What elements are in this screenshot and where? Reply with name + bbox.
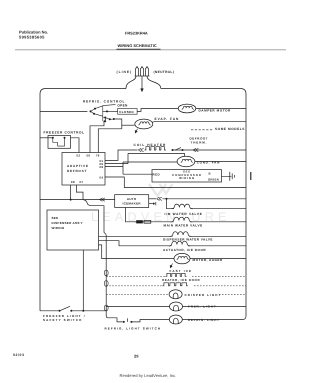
svg-text:FREEZER CONTROL: FREEZER CONTROL — [44, 131, 85, 135]
bus tick — [250, 172, 251, 180]
dispenser ground drop — [82, 250, 84, 311]
svg-text:CRISPER LIGHT: CRISPER LIGHT — [185, 293, 222, 297]
cond fan motor — [177, 156, 195, 166]
svg-text:Rendered by LeadVenture, Inc.: Rendered by LeadVenture, Inc. — [120, 373, 177, 378]
svg-text:AUTO: AUTO — [127, 197, 137, 201]
refrig control lower contacts — [104, 117, 106, 119]
svg-text:E2: E2 — [77, 154, 81, 158]
svg-text:REFRIG. LIGHT SWITCH: REFRIG. LIGHT SWITCH — [105, 327, 162, 331]
crisper dashed right — [219, 293, 246, 295]
svg-text:T9: T9 — [96, 154, 100, 158]
refrig control throw open — [103, 105, 116, 106]
left bus — [39, 94, 41, 311]
svg-text:E9: E9 — [100, 165, 104, 169]
V2 connector 2 — [104, 281, 108, 287]
damper motor — [178, 104, 196, 113]
wire E6 up — [90, 118, 106, 152]
ground lead arrow — [141, 76, 143, 89]
svg-text:RED: RED — [153, 173, 161, 177]
plug body line — [135, 75, 150, 77]
i/m water valve wire — [191, 208, 247, 210]
coil heater element — [145, 147, 166, 150]
refrig light switch — [123, 321, 125, 323]
svg-text:THERM.: THERM. — [191, 140, 208, 144]
wire E8 down — [70, 185, 72, 200]
icemaker feed wire — [40, 199, 115, 201]
auger feed — [99, 245, 175, 259]
watermark logo — [149, 184, 173, 196]
wire ground tail — [228, 175, 231, 177]
svg-text:(NEUTRAL): (NEUTRAL) — [154, 70, 175, 74]
top wire left segment — [40, 89, 126, 95]
header rule — [15, 49, 286, 51]
right bus bottom corner — [241, 316, 246, 320]
main water valve coil — [171, 217, 193, 222]
adaptive defrost box — [62, 153, 105, 186]
wire damper to bus — [196, 108, 246, 110]
compressor red wire — [123, 173, 152, 175]
dispenser valve coil — [170, 232, 192, 237]
plug prong ground — [140, 67, 143, 77]
auger motor — [174, 253, 190, 263]
feeder V2 upper — [104, 233, 106, 253]
wire evap fan to bus — [152, 120, 246, 123]
freezer light wire — [40, 310, 59, 312]
svg-text:DEFROST: DEFROST — [67, 169, 87, 173]
svg-text:ICEMAKER: ICEMAKER — [122, 202, 141, 206]
right bus — [245, 94, 247, 316]
i/m water valve coil — [171, 204, 193, 209]
svg-text:GREEN: GREEN — [208, 177, 219, 181]
svg-text:SAFETY SWITCH: SAFETY SWITCH — [43, 318, 82, 322]
V2 connector 1 — [104, 270, 108, 276]
crisper dashed left — [106, 293, 169, 295]
icemaker feed connector — [100, 198, 105, 201]
frzr wire right — [182, 306, 246, 308]
svg-text:DISPENSER ASS'Y: DISPENSER ASS'Y — [52, 221, 83, 225]
wire freezer control to E2 riser — [71, 138, 80, 153]
svg-text:WIRING: WIRING — [179, 176, 195, 180]
wire bus to refrig control — [40, 110, 87, 112]
actuator feed — [99, 241, 172, 246]
refrig wire right — [182, 319, 241, 321]
svg-text:HEATER, ICE DOOR: HEATER, ICE DOOR — [162, 278, 200, 282]
main water valve wire — [190, 221, 246, 223]
wire branch to i/m valve — [166, 198, 168, 200]
feeder V2 lower — [105, 252, 107, 316]
svg-text:5995385605: 5995385605 — [19, 35, 45, 40]
heater dashed left — [106, 285, 162, 287]
svg-text:E8: E8 — [71, 180, 75, 184]
svg-text:EVAP. FAN: EVAP. FAN — [155, 117, 180, 121]
svg-text:FAST ICE: FAST ICE — [170, 269, 193, 273]
svg-text:ADAPTIVE: ADAPTIVE — [67, 164, 89, 168]
wire E9 right — [105, 165, 123, 167]
V2 connector 3 — [104, 305, 108, 311]
svg-text:E6: E6 — [87, 154, 91, 158]
closed box — [118, 109, 138, 115]
actuator coil — [169, 241, 191, 246]
freezer control box — [48, 136, 71, 149]
actuator wire — [188, 245, 246, 247]
wire closed box to damper — [137, 109, 178, 112]
refrig light wire — [106, 316, 123, 322]
cord wire neutral side — [147, 76, 161, 89]
svg-text:(LINE): (LINE) — [117, 70, 133, 74]
svg-text:B: B — [209, 172, 211, 176]
defrost therm switch — [175, 148, 181, 150]
defrost therm junction dot — [172, 149, 174, 151]
inline connector on main valve feed — [136, 220, 143, 223]
fast ice dashed left — [106, 275, 167, 277]
svg-text:SOME MODELS: SOME MODELS — [215, 127, 245, 131]
frzr lamp — [170, 302, 183, 311]
plug prong line — [135, 67, 138, 77]
cord wire line side — [126, 76, 136, 89]
refrig control switch poles — [90, 110, 92, 112]
svg-text:29: 29 — [134, 354, 139, 359]
dispenser valve feed — [99, 235, 173, 237]
svg-text:E7: E7 — [80, 180, 84, 184]
wire to defrost therm — [172, 149, 246, 151]
auger wire to bus — [190, 258, 246, 260]
wire E1 to coil heater — [105, 150, 138, 160]
svg-text:DISPENSER WATER VALVE: DISPENSER WATER VALVE — [163, 238, 213, 242]
freezer control switch — [52, 137, 54, 139]
freezer light switch — [59, 310, 61, 312]
wire icemaker out to bus — [163, 198, 247, 200]
svg-text:02/03: 02/03 — [13, 353, 25, 357]
icemaker out wire — [149, 198, 156, 200]
svg-text:WIRING SCHEMATIC: WIRING SCHEMATIC — [118, 43, 157, 48]
svg-text:CLOSED: CLOSED — [119, 110, 134, 114]
wire T9 up — [98, 129, 122, 153]
evap fan feed — [122, 124, 135, 126]
frzr wire left — [106, 306, 169, 308]
ground symbol — [229, 172, 231, 181]
icemaker stub — [149, 203, 153, 205]
wire E5 right — [105, 163, 128, 165]
wire E7 down — [76, 185, 83, 200]
svg-text:SEE: SEE — [52, 216, 59, 220]
svg-text:E4: E4 — [100, 175, 104, 179]
svg-text:DAMPER MOTOR: DAMPER MOTOR — [199, 109, 232, 113]
wire bus to freezer control — [40, 137, 53, 139]
evap fan motor — [135, 119, 153, 129]
svg-text:FRS23KR4A: FRS23KR4A — [125, 31, 148, 36]
compressor box — [152, 170, 222, 182]
top wire right segment — [161, 89, 246, 95]
evap fan arrow — [136, 129, 138, 132]
svg-text:MAIN WATER VALVE: MAIN WATER VALVE — [164, 224, 203, 228]
icemaker out connector — [157, 197, 162, 200]
svg-text:ACTUATOR, ICE DOOR: ACTUATOR, ICE DOOR — [163, 248, 206, 252]
wire E5 over to cond fan top — [128, 153, 184, 156]
refrig control throw closed — [106, 110, 108, 112]
feed junction dot — [70, 199, 72, 201]
plug prong neutral — [145, 67, 148, 77]
feed split to V2 — [83, 200, 104, 233]
some models dashed wire — [191, 129, 213, 131]
auto icemaker box — [115, 195, 149, 208]
dispenser box — [47, 210, 99, 250]
heater dashed right — [194, 285, 246, 287]
fast ice dashed right — [192, 275, 246, 277]
svg-text:REFRIG. LIGHT: REFRIG. LIGHT — [188, 318, 220, 322]
svg-text:COND. FAN: COND. FAN — [197, 160, 220, 164]
fast ice heater — [166, 273, 187, 276]
compressor green wire — [222, 175, 230, 177]
refrig lamp — [169, 315, 182, 324]
crisper lamp — [169, 290, 182, 299]
vertical E9 branch — [122, 162, 124, 174]
heater ice door element — [163, 283, 188, 286]
svg-text:WIRING: WIRING — [52, 226, 65, 230]
main water valve feed — [126, 208, 174, 222]
wire switch to evap riser — [114, 119, 122, 129]
svg-text:I/M WATER VALVE: I/M WATER VALVE — [165, 212, 203, 216]
svg-text:OPEN: OPEN — [117, 104, 128, 108]
defrost therm connector — [193, 148, 198, 151]
dispenser valve wire — [189, 235, 246, 237]
connector coil heater — [138, 148, 143, 151]
vertical E5 riser — [127, 153, 129, 163]
wire to cond fan — [123, 161, 177, 163]
wire E4 to bus — [105, 177, 246, 188]
wire cond fan to bus — [195, 161, 246, 163]
